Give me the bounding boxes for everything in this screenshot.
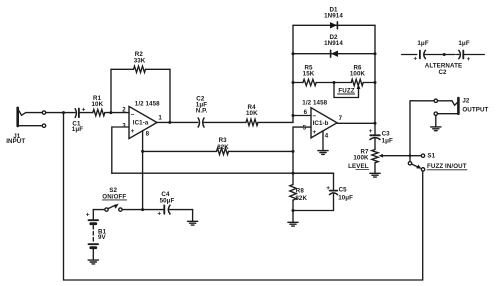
svg-text:LEVEL: LEVEL xyxy=(348,163,369,170)
ground (J2) xyxy=(431,127,441,131)
wire J2 sleeve to ground xyxy=(435,115,437,126)
svg-text:1N914: 1N914 xyxy=(324,13,343,20)
capacitor C5 xyxy=(330,191,338,211)
underline LEVEL xyxy=(356,169,369,171)
resistor R8 xyxy=(290,185,296,201)
svg-text:R8: R8 xyxy=(296,187,305,194)
svg-text:1N914: 1N914 xyxy=(324,40,343,47)
junction dot R6 right xyxy=(374,81,377,84)
junction dot V+ rail xyxy=(141,208,144,211)
svg-text:ON/OFF: ON/OFF xyxy=(102,193,126,200)
svg-text:+: + xyxy=(82,107,86,114)
wire pin6 to IC1-b xyxy=(293,115,311,117)
plus sign C1 xyxy=(82,107,86,114)
label J2 OUTPUT xyxy=(462,98,488,114)
svg-text:IC1-a: IC1-a xyxy=(133,119,149,126)
label S1 FUZZ IN/OUT xyxy=(427,153,467,171)
jack J1 xyxy=(18,108,46,128)
pin number 3 xyxy=(122,122,126,129)
wire IC1-b output xyxy=(337,122,375,124)
ground (C4) xyxy=(188,221,198,225)
wire R6 right stub xyxy=(363,82,375,84)
svg-text:9V: 9V xyxy=(98,234,107,241)
op-amp U1 IC1-b xyxy=(311,108,337,138)
label C3 1uF xyxy=(382,131,393,145)
svg-text:−: − xyxy=(131,111,135,118)
underline FUZZ IN/OUT xyxy=(427,169,467,171)
potentiometer R6 xyxy=(351,79,363,85)
alternate C2: capacitor left 1uF xyxy=(420,50,444,58)
wire feedback top left xyxy=(111,68,134,70)
wire bias node to C5 xyxy=(293,173,334,190)
resistor R2 xyxy=(134,66,146,72)
wire S2 to C4 xyxy=(122,209,164,211)
pin number 1 xyxy=(158,115,162,122)
alternate C2: capacitor right 1uF xyxy=(444,50,484,58)
junction dot R5/R6 xyxy=(333,81,336,84)
wire C4 to ground xyxy=(192,210,194,221)
svg-text:FUZZ IN/OUT: FUZZ IN/OUT xyxy=(427,163,467,170)
wiper arm R6 FUZZ (junction to wiper arrow) xyxy=(334,83,360,98)
minus sign IC1-a xyxy=(131,111,135,118)
svg-text:−: − xyxy=(312,113,316,120)
svg-text:50μF: 50μF xyxy=(160,198,175,205)
label FUZZ xyxy=(338,87,354,94)
wire pin3 left xyxy=(112,127,129,173)
plus sign alternate right xyxy=(467,56,471,63)
wire R7 bottom xyxy=(374,163,376,173)
wire wiper to S1 xyxy=(410,155,421,157)
junction dot pin8/R3 xyxy=(141,150,144,153)
label ALTERNATE C2 xyxy=(425,63,462,77)
label R7 100K LEVEL xyxy=(348,149,369,170)
svg-text:C2: C2 xyxy=(438,69,447,76)
plus sign IC1-b xyxy=(312,129,316,136)
label R8 82K xyxy=(295,187,307,201)
wire R1 to pin2 xyxy=(105,112,129,114)
wire bottom bus xyxy=(64,279,423,281)
junction dot R5 left xyxy=(292,81,295,84)
svg-text:C5: C5 xyxy=(339,186,348,193)
label R3 82K xyxy=(217,137,229,151)
wire R5 left stub xyxy=(293,82,303,84)
wire R4 to pin6 corner xyxy=(258,116,293,123)
plus sign C5 xyxy=(326,185,330,192)
battery B1 xyxy=(89,210,99,260)
node A junction dot (input) xyxy=(62,111,65,114)
label R2 33K xyxy=(134,51,146,65)
svg-text:3: 3 xyxy=(122,122,126,129)
op-amp U1 IC1-a xyxy=(129,106,157,138)
diode D2 1N914 xyxy=(331,50,338,57)
wire pin4 xyxy=(322,131,324,151)
svg-text:INPUT: INPUT xyxy=(6,138,25,145)
ground (R8/C5) xyxy=(288,222,298,226)
underline FUZZ xyxy=(338,93,355,95)
label IC1-a xyxy=(133,119,149,126)
label C2 1uF N.P. xyxy=(196,96,208,115)
plus sign B1 xyxy=(86,212,90,219)
svg-text:+: + xyxy=(157,211,161,218)
alternate C2: left stub wire xyxy=(402,54,417,56)
label R5 15K xyxy=(303,64,315,77)
ground (R7) xyxy=(370,173,380,177)
resistor R5 xyxy=(303,79,316,85)
plus sign alternate left xyxy=(413,56,417,63)
svg-text:+: + xyxy=(86,212,90,219)
wire bias line (pin3 to bias node) xyxy=(112,172,334,174)
ground (B1) xyxy=(88,260,98,264)
svg-text:1/2 1458: 1/2 1458 xyxy=(135,101,160,108)
wire D1 top rail xyxy=(293,24,375,26)
junction dot alternate C2 xyxy=(443,53,446,56)
wire J2 vertical xyxy=(410,101,434,164)
wire pin8 vertical (V+) xyxy=(142,131,144,210)
svg-text:OUTPUT: OUTPUT xyxy=(462,107,488,114)
svg-text:1/2 1458: 1/2 1458 xyxy=(302,99,327,106)
wire battery to S2 xyxy=(93,209,105,211)
svg-text:1: 1 xyxy=(158,115,162,122)
label B1 9V xyxy=(98,228,107,241)
wire left bus vertical xyxy=(63,113,65,280)
underline ON/OFF xyxy=(102,199,126,201)
svg-text:+: + xyxy=(312,129,316,136)
minus sign IC1-b xyxy=(312,113,316,120)
label 1uF right xyxy=(458,40,469,47)
svg-text:100K: 100K xyxy=(353,155,369,162)
wire IC1-a output xyxy=(157,121,198,123)
svg-text:82K: 82K xyxy=(217,144,229,151)
node B junction dot (pin2) xyxy=(109,111,112,114)
svg-text:10K: 10K xyxy=(92,101,104,108)
label S2 ON/OFF xyxy=(102,187,126,201)
svg-text:FUZZ: FUZZ xyxy=(338,87,354,94)
wire R3 right xyxy=(229,150,294,152)
wire C5 bottom to R8 xyxy=(293,210,334,212)
svg-text:33K: 33K xyxy=(134,58,146,65)
label R4 10K xyxy=(246,104,258,117)
label 1/2 1458 (IC1-a) xyxy=(135,101,160,108)
wire R5-R6 xyxy=(316,82,351,84)
svg-text:S1: S1 xyxy=(427,153,435,160)
junction dot output/feedback xyxy=(168,121,171,124)
svg-text:15K: 15K xyxy=(303,70,315,77)
svg-text:5: 5 xyxy=(303,125,307,132)
junction dot D2 right xyxy=(374,52,377,55)
resistor R1 xyxy=(93,109,105,115)
switch S1 xyxy=(408,154,424,171)
junction dot pin6 xyxy=(292,114,295,117)
wire D2 rail xyxy=(293,53,375,55)
label D2 1N914 xyxy=(324,34,343,47)
pin number 2 xyxy=(122,107,126,114)
junction dot bias node bottom xyxy=(292,172,295,175)
label C4 50uF xyxy=(160,191,175,205)
svg-text:6: 6 xyxy=(304,109,308,116)
svg-text:10K: 10K xyxy=(246,110,258,117)
pin number 8 xyxy=(146,131,150,138)
label 1uF left xyxy=(417,40,428,47)
wiper arrow R7 xyxy=(379,154,410,158)
wire feedback top right xyxy=(146,68,171,70)
svg-text:10μF: 10μF xyxy=(338,195,353,202)
label 1/2 1458 (IC1-b) xyxy=(302,99,327,106)
label C1 1uF xyxy=(72,120,83,133)
wire pin5 left xyxy=(293,127,311,184)
svg-text:R3: R3 xyxy=(219,137,228,144)
pin number 4 xyxy=(325,132,329,139)
wire R3 left xyxy=(143,150,217,152)
svg-text:100K: 100K xyxy=(350,70,366,77)
svg-text:IC1-b: IC1-b xyxy=(313,120,329,127)
label D1 1N914 xyxy=(324,7,343,20)
jack J2 xyxy=(434,98,458,115)
junction dot wiper/J2 line xyxy=(409,154,412,157)
label IC1-b xyxy=(313,120,329,127)
svg-text:1μF: 1μF xyxy=(72,126,83,133)
switch S2 xyxy=(105,204,122,212)
wire feedback left vertical xyxy=(110,69,112,112)
svg-text:+: + xyxy=(326,185,330,192)
svg-text:N.P.: N.P. xyxy=(196,108,208,115)
capacitor C2 xyxy=(198,118,246,127)
svg-text:4: 4 xyxy=(325,132,329,139)
ground (IC1-b pin4) xyxy=(318,151,328,155)
wire right feedback vertical xyxy=(374,25,376,123)
capacitor C4 xyxy=(164,205,192,214)
capacitor C3 xyxy=(370,123,380,149)
junction dot D2 left xyxy=(292,52,295,55)
pin number 7 xyxy=(339,115,343,122)
svg-text:7: 7 xyxy=(339,115,343,122)
resistor R3 xyxy=(217,148,229,154)
label C5 10uF xyxy=(338,186,353,201)
label R1 10K xyxy=(92,95,104,108)
svg-text:1μF: 1μF xyxy=(458,40,469,47)
wire feedback right vertical xyxy=(169,69,171,122)
junction dot R8/C5 bottom xyxy=(292,209,295,212)
svg-text:J2: J2 xyxy=(462,98,470,105)
svg-text:+: + xyxy=(131,128,135,135)
svg-text:1μF: 1μF xyxy=(382,137,393,144)
plus sign IC1-a xyxy=(131,128,135,135)
junction dot output IC1-b xyxy=(374,122,377,125)
junction dot bias node top xyxy=(292,150,295,153)
plus sign C3 xyxy=(369,128,373,135)
capacitor C1 xyxy=(75,109,93,118)
label J1 INPUT xyxy=(6,133,25,145)
svg-text:1μF: 1μF xyxy=(417,40,428,47)
potentiometer R7 xyxy=(372,150,378,163)
wire pin6 node vertical (feedback left) xyxy=(292,25,294,115)
resistor R4 xyxy=(246,119,258,125)
svg-text:8: 8 xyxy=(146,131,150,138)
svg-text:+: + xyxy=(467,56,471,63)
wire S1 to bottom bus xyxy=(422,171,424,280)
wire R8 bottom xyxy=(292,200,294,222)
svg-text:+: + xyxy=(369,128,373,135)
pin number 5 xyxy=(303,125,307,132)
label R6 100K xyxy=(350,64,366,77)
plus sign C4 xyxy=(157,211,161,218)
svg-text:+: + xyxy=(413,56,417,63)
svg-text:2: 2 xyxy=(122,107,126,114)
diode D1 1N914 xyxy=(330,22,337,29)
pin number 6 xyxy=(304,109,308,116)
wire J1 tip to C1 xyxy=(46,112,75,114)
svg-text:82K: 82K xyxy=(295,195,307,202)
